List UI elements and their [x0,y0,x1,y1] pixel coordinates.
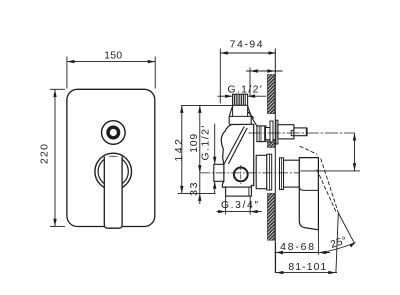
outlet centerline [249,132,355,134]
handle inner circle [98,156,128,186]
outlet flange behind wall [270,121,273,142]
button inner ring [108,127,119,138]
svg-text:48-68: 48-68 [280,242,316,253]
dashed rotated lever right edge [321,159,339,214]
handle lever solid [299,158,318,230]
cartridge housing [256,155,267,188]
outlet pipe section 2 [294,128,307,136]
button outer circle [102,121,126,145]
lever right edge extension down [317,230,319,255]
svg-text:81-101: 81-101 [288,262,327,273]
svg-text:G.1/2′: G.1/2′ [201,124,212,160]
48-68 dim line [275,252,331,254]
body internal diagonal 2 [228,128,247,164]
rotated dim 109 text [189,133,200,153]
G3/4 text [221,200,260,211]
vertical inlet pipe threaded top [233,94,248,105]
dim 150 text [104,51,122,62]
dim 142 line [181,105,183,193]
rotated G1/2 label (left) [201,124,212,160]
outlet pipe behind wall [266,128,271,140]
dim 74-94 line [220,52,276,54]
handle stem [104,157,122,229]
ext lines 220 [50,88,65,90]
rotated dim 142 text [174,136,185,161]
wall hatch middle band [267,139,274,147]
81-101 dim line [275,272,337,274]
dim2 line y71 [246,70,283,72]
pipe mid section [233,105,248,116]
25 degree arc [319,243,356,253]
union nut [229,105,251,128]
outlet flange on wall face [276,120,278,144]
right dim bottom ext line [300,170,360,172]
lever seam line [299,187,318,191]
body top-right chamfer [248,112,254,118]
valve body [221,124,253,187]
G3/4 dim ext lines [225,197,227,215]
dim 109 line [199,105,201,172]
wall face line [274,49,276,274]
81-101 text [288,262,327,273]
svg-text:142: 142 [174,136,185,161]
svg-text:G.3/4″: G.3/4″ [221,200,260,211]
cartridge axis centerline [200,172,300,174]
48-68 left ext line [275,243,277,273]
dashed rotated lever top edge [300,146,318,154]
wall hatch upper band [267,75,274,114]
outlet pipe end cap [306,128,308,136]
outlet connector: body nut [257,126,266,142]
ext line 74-94 left [219,49,221,104]
dim 33 line + bottom arrow [199,173,201,204]
81-101 right extension from tip [336,214,338,273]
svg-text:150: 150 [104,51,122,62]
dim 150 line [67,61,155,63]
rotated dim 33 text [189,181,200,196]
dim2 ext line [249,68,251,97]
body internal diagonal 1 [224,127,244,164]
trim sleeve [284,160,300,187]
right dim (pipe to handle) line [354,133,356,171]
rotated lever edge extension leg [338,213,354,243]
handle outer circle [95,153,132,190]
G3/4 dim line [217,211,263,213]
ext lines 150 [66,57,68,89]
plate front view [67,89,155,226]
left inlet boss G1/2 [214,164,224,181]
sleeve flange on wall [280,158,284,190]
dim 74-94 text [230,39,265,50]
outlet pipe notch [291,131,294,136]
G1/2 top text [227,85,263,96]
level A ext line [181,104,248,106]
wall hatch lower band [267,193,274,240]
48-68 text [280,242,316,253]
dashed rotated lever left edge [317,170,336,213]
25 degree text [329,235,348,251]
cartridge disc in wall [267,154,272,190]
body top-right slope [251,117,257,126]
pipe width dim y96 [218,95,232,97]
dim 220 line [54,90,56,227]
svg-text:109: 109 [189,133,200,153]
G1/2 label line [214,124,216,164]
bottom outlet stub [226,187,252,196]
outlet pipe section 1 [278,125,294,139]
svg-text:74-94: 74-94 [230,39,265,50]
level C ext line [178,192,216,194]
port circle vertical centerline [240,165,242,184]
dim 220 text [40,143,51,164]
port circle G3/4 [234,168,248,182]
svg-text:220: 220 [40,143,51,164]
